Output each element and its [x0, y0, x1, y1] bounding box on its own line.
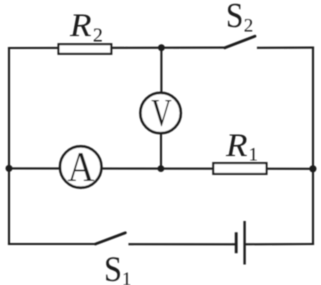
node left-middle junction	[6, 165, 13, 172]
wire top-right contact to corner	[258, 47, 313, 49]
label R2	[69, 8, 103, 47]
wire bottom-left to S1 pivot	[9, 243, 96, 245]
wire voltmeter branch upper	[160, 48, 162, 95]
svg-text:1: 1	[122, 269, 131, 285]
svg-text:S: S	[104, 249, 122, 285]
svg-text:R: R	[69, 8, 92, 44]
voltmeter V	[140, 91, 180, 134]
switch S2	[225, 36, 255, 48]
resistor R2	[59, 44, 112, 54]
wire left edge vertical	[8, 48, 10, 244]
wire battery to bottom-right corner	[246, 243, 313, 245]
svg-text:1: 1	[249, 144, 259, 165]
battery	[236, 221, 244, 265]
node middle voltmeter junction	[158, 165, 165, 172]
svg-text:2: 2	[93, 24, 103, 46]
switch S1	[96, 233, 126, 244]
svg-text:S: S	[226, 0, 244, 35]
label S2	[226, 0, 253, 37]
wire top-left horizontal	[9, 47, 225, 50]
svg-text:V: V	[151, 91, 172, 134]
resistor R1	[213, 163, 266, 174]
node right-middle junction	[309, 165, 316, 172]
label S1	[104, 249, 131, 285]
ammeter A	[60, 145, 101, 191]
node top voltmeter junction	[158, 44, 165, 51]
wire voltmeter branch lower	[160, 131, 162, 169]
wire right edge vertical	[312, 48, 314, 244]
svg-text:2: 2	[244, 16, 254, 37]
svg-text:R: R	[225, 128, 248, 164]
wire S1 contact to battery	[130, 243, 236, 245]
label R1	[225, 128, 258, 165]
wire middle horizontal	[9, 167, 313, 170]
svg-text:A: A	[68, 145, 95, 191]
